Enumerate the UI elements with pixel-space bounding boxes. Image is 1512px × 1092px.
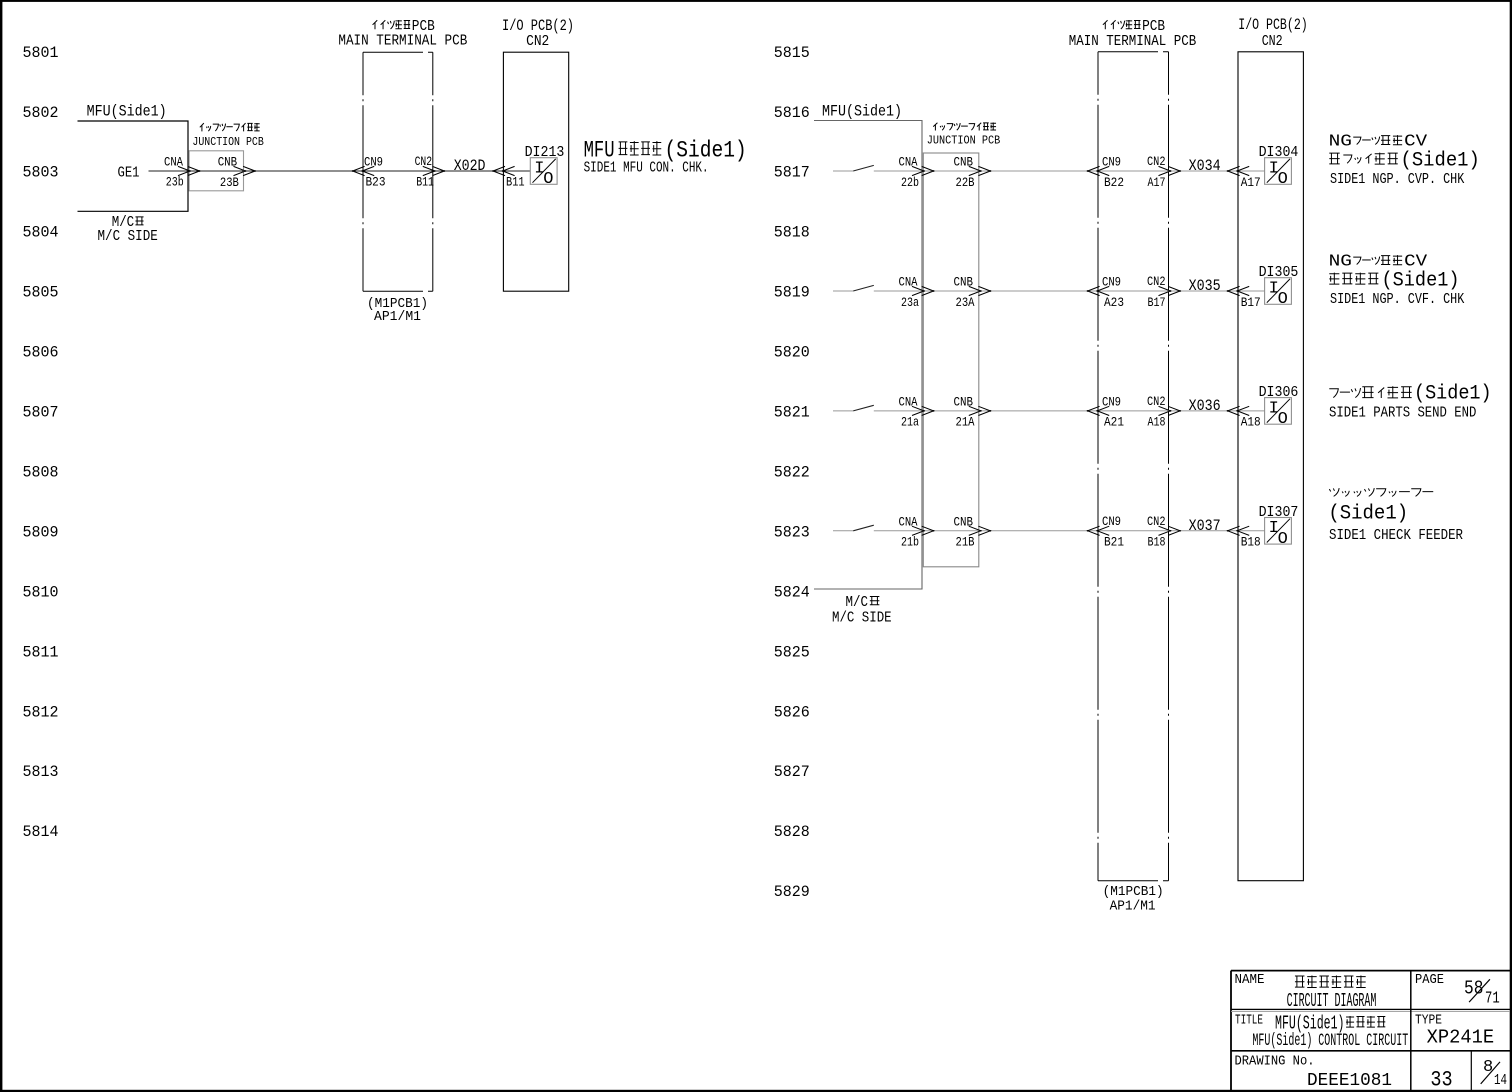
- connector CNA pin 23b: [178, 166, 190, 175]
- svg-text:SIDE1 CHECK FEEDER: SIDE1 CHECK FEEDER: [1329, 527, 1463, 544]
- svg-text:5810: 5810: [23, 583, 59, 601]
- svg-text:(M1PCB1): (M1PCB1): [1103, 884, 1164, 900]
- svg-text:DRAWING No.: DRAWING No.: [1235, 1054, 1315, 1070]
- switch contact row X034: [833, 170, 853, 172]
- svg-text:CNB: CNB: [954, 515, 974, 529]
- svg-text:CN9: CN9: [1102, 155, 1121, 169]
- svg-text:33: 33: [1430, 1068, 1452, 1092]
- svg-text:(Side1): (Side1): [1382, 270, 1460, 293]
- svg-text:71: 71: [1485, 990, 1500, 1009]
- wire row X035: [874, 290, 1265, 292]
- svg-text:5821: 5821: [774, 404, 810, 422]
- main terminal PCB box right (dash-dot): [1098, 51, 1169, 53]
- svg-text:TITLE: TITLE: [1235, 1014, 1263, 1029]
- connector CNA pin 23a: [912, 286, 924, 295]
- svg-text:NG: NG: [1329, 132, 1352, 151]
- connector CN9 pin B22: [1088, 166, 1100, 175]
- connector CN2 pin A18: [1159, 406, 1171, 415]
- connector CN2 pin A17 entry: [1228, 166, 1240, 175]
- svg-text:(Side1): (Side1): [1328, 503, 1408, 526]
- svg-text:B22: B22: [1104, 176, 1124, 190]
- I/O module DI213 symbol: [530, 158, 557, 185]
- fraction slash 58/71: [1469, 979, 1490, 1002]
- svg-text:A21: A21: [1104, 416, 1124, 430]
- svg-text:CN2: CN2: [1262, 33, 1283, 50]
- svg-text:23A: 23A: [956, 296, 975, 310]
- title block frame: [1231, 970, 1510, 972]
- svg-text:CNA: CNA: [899, 276, 918, 290]
- svg-text:CN2: CN2: [1147, 395, 1166, 409]
- svg-text:MFU(Side1): MFU(Side1): [822, 102, 902, 120]
- svg-text:CN9: CN9: [1102, 275, 1121, 289]
- switch contact row X035: [833, 290, 853, 292]
- svg-text:5809: 5809: [23, 523, 59, 541]
- svg-text:CNA: CNA: [899, 156, 918, 170]
- svg-text:CN9: CN9: [1102, 395, 1121, 409]
- svg-text:5805: 5805: [23, 284, 59, 302]
- svg-text:JUNCTION PCB: JUNCTION PCB: [927, 134, 1001, 148]
- svg-text:CN2: CN2: [1147, 155, 1166, 169]
- title text: electric circuit diagram (Japanese): [1295, 976, 1304, 987]
- svg-text:5824: 5824: [774, 583, 810, 601]
- svg-text:5829: 5829: [774, 883, 810, 901]
- svg-text:O: O: [1278, 170, 1288, 189]
- junction PCB box right: [923, 153, 979, 567]
- svg-text:MFU(Side1) CONTROL CIRCUIT: MFU(Side1) CONTROL CIRCUIT: [1252, 1031, 1408, 1051]
- svg-text:21B: 21B: [956, 536, 975, 550]
- svg-text:B11: B11: [416, 175, 434, 189]
- header main terminal PCB (Japanese) right: [1103, 20, 1108, 29]
- svg-text:CNB: CNB: [954, 396, 974, 410]
- svg-text:CN9: CN9: [364, 155, 383, 169]
- svg-text:SIDE1 NGP. CVP. CHK: SIDE1 NGP. CVP. CHK: [1330, 171, 1464, 188]
- svg-text:B21: B21: [1104, 536, 1124, 550]
- svg-text:MAIN TERMINAL PCB: MAIN TERMINAL PCB: [1069, 33, 1197, 50]
- junction PCB box left: [189, 151, 243, 191]
- svg-text:21A: 21A: [956, 416, 975, 430]
- svg-text:B18: B18: [1241, 536, 1261, 550]
- svg-text:CNB: CNB: [218, 156, 238, 170]
- svg-text:O: O: [1278, 290, 1288, 309]
- connector CN2 pin B18 entry: [1228, 526, 1240, 535]
- connector CN9 pin A21: [1088, 406, 1100, 415]
- connector CN2 pin B11 entry: [493, 166, 505, 175]
- svg-text:O: O: [1278, 410, 1288, 429]
- svg-text:A17: A17: [1241, 176, 1261, 190]
- connector CN9 pin B23: [353, 166, 365, 175]
- svg-text:NG: NG: [1329, 252, 1352, 271]
- svg-text:(Side1): (Side1): [1414, 382, 1492, 405]
- svg-text:X02D: X02D: [454, 157, 486, 175]
- svg-text:SIDE1 PARTS SEND END: SIDE1 PARTS SEND END: [1329, 404, 1476, 421]
- connector CN2 pin B11: [423, 166, 435, 175]
- connector CN2 pin A17: [1159, 166, 1171, 175]
- svg-text:5815: 5815: [774, 44, 810, 62]
- svg-text:5811: 5811: [23, 643, 59, 661]
- svg-text:CN2: CN2: [1147, 275, 1166, 289]
- svg-text:MAIN TERMINAL PCB: MAIN TERMINAL PCB: [338, 33, 467, 50]
- svg-text:22B: 22B: [956, 176, 975, 190]
- connector CNB pin 21B: [969, 526, 981, 535]
- svg-text:CIRCUIT DIAGRAM: CIRCUIT DIAGRAM: [1287, 990, 1377, 1012]
- annotation DI306: parts send end (Side1): [1329, 389, 1338, 398]
- connector CN2 pin B17: [1159, 286, 1171, 295]
- wire row X036: [874, 410, 1265, 412]
- svg-text:23B: 23B: [220, 176, 239, 190]
- svg-text:CN2: CN2: [415, 155, 433, 169]
- svg-text:23a: 23a: [901, 296, 919, 310]
- connector CNB pin 22B: [969, 166, 981, 175]
- svg-text:5814: 5814: [23, 823, 59, 841]
- svg-text:A23: A23: [1104, 296, 1124, 310]
- connector CN2 pin A18 entry: [1228, 406, 1240, 415]
- page border frame: [0, 0, 1512, 2]
- connector CNA pin 21a: [912, 406, 924, 415]
- svg-text:O: O: [1278, 530, 1288, 549]
- svg-text:GE1: GE1: [118, 166, 140, 182]
- svg-text:5817: 5817: [774, 164, 810, 182]
- svg-text:5828: 5828: [774, 823, 810, 841]
- svg-text:CN2: CN2: [1147, 515, 1166, 529]
- svg-text:(Side1): (Side1): [1401, 150, 1480, 173]
- svg-text:M/C SIDE: M/C SIDE: [832, 610, 892, 627]
- svg-text:21b: 21b: [901, 536, 919, 550]
- svg-text:CN2: CN2: [526, 33, 549, 50]
- connector CN9 pin B21: [1088, 526, 1100, 535]
- svg-text:XP241E: XP241E: [1427, 1027, 1495, 1049]
- svg-text:SIDE1 MFU CON. CHK.: SIDE1 MFU CON. CHK.: [584, 159, 709, 176]
- svg-text:5816: 5816: [774, 104, 810, 122]
- svg-text:5826: 5826: [774, 703, 810, 721]
- svg-text:5812: 5812: [23, 703, 59, 721]
- svg-text:5802: 5802: [23, 104, 59, 122]
- svg-text:5818: 5818: [774, 224, 810, 242]
- svg-text:8: 8: [1483, 1058, 1493, 1077]
- svg-text:22b: 22b: [901, 176, 919, 190]
- connector CN2 pin B17 entry: [1228, 286, 1240, 295]
- svg-text:CV: CV: [1404, 252, 1427, 271]
- svg-text:MFU(Side1): MFU(Side1): [87, 102, 167, 120]
- annotation DI307: check feeder (Side1): [1329, 488, 1339, 496]
- svg-text:AP1/M1: AP1/M1: [1110, 899, 1156, 915]
- svg-text:X036: X036: [1189, 397, 1221, 415]
- junction PCB label (Japanese) left: [200, 123, 204, 131]
- switch contact row X037: [833, 530, 853, 532]
- svg-text:5813: 5813: [23, 763, 59, 781]
- svg-text:CNB: CNB: [954, 276, 974, 290]
- svg-text:X037: X037: [1189, 517, 1221, 535]
- I/O module DI305 symbol: [1265, 278, 1292, 305]
- I/O PCB(2) box right: [1238, 52, 1303, 881]
- svg-text:CV: CV: [1404, 132, 1427, 151]
- switch contact row X036: [833, 410, 853, 412]
- I/O module DI304 symbol: [1265, 158, 1292, 185]
- svg-text:PAGE: PAGE: [1415, 972, 1444, 988]
- main terminal PCB box left (dash-dot): [363, 51, 433, 53]
- svg-text:B23: B23: [366, 176, 386, 190]
- svg-text:A18: A18: [1148, 416, 1166, 430]
- svg-text:5819: 5819: [774, 284, 810, 302]
- svg-text:5807: 5807: [23, 404, 59, 422]
- svg-text:14: 14: [1494, 1072, 1507, 1089]
- svg-text:O: O: [543, 170, 553, 189]
- svg-text:M/C: M/C: [846, 595, 869, 611]
- svg-text:CNA: CNA: [899, 515, 918, 529]
- svg-text:CNA: CNA: [164, 156, 183, 170]
- svg-text:5806: 5806: [23, 344, 59, 362]
- connector CN2 pin B18: [1159, 526, 1171, 535]
- svg-text:5801: 5801: [23, 44, 59, 62]
- svg-text:5825: 5825: [774, 643, 810, 661]
- svg-text:I/O PCB(2): I/O PCB(2): [1238, 16, 1307, 34]
- svg-text:23b: 23b: [166, 176, 184, 190]
- svg-text:NAME: NAME: [1235, 972, 1265, 988]
- connector CN9 pin A23: [1088, 286, 1100, 295]
- svg-text:X034: X034: [1189, 157, 1221, 175]
- svg-text:CNB: CNB: [954, 156, 974, 170]
- svg-text:B11: B11: [506, 176, 525, 190]
- svg-text:A17: A17: [1148, 176, 1166, 190]
- connector CNA pin 21b: [912, 526, 924, 535]
- connector CNA pin 22b: [912, 166, 924, 175]
- fraction slash 8/14: [1481, 1062, 1500, 1084]
- svg-text:M/C SIDE: M/C SIDE: [98, 228, 158, 245]
- I/O module DI306 symbol: [1265, 398, 1292, 425]
- wire row X037: [874, 530, 1265, 532]
- svg-text:5822: 5822: [774, 463, 810, 481]
- I/O PCB(2) box left: [503, 52, 568, 291]
- svg-text:B17: B17: [1148, 296, 1166, 310]
- svg-text:5808: 5808: [23, 463, 59, 481]
- junction PCB label (Japanese) right: [933, 123, 937, 131]
- I/O module DI307 symbol: [1265, 518, 1292, 545]
- connector CNB pin 23B: [234, 166, 246, 175]
- svg-text:21a: 21a: [901, 416, 919, 430]
- svg-text:CN9: CN9: [1102, 515, 1121, 529]
- svg-text:SIDE1 NGP. CVF. CHK: SIDE1 NGP. CVF. CHK: [1330, 291, 1464, 308]
- connector CNB pin 23A: [969, 286, 981, 295]
- svg-text:5823: 5823: [774, 523, 810, 541]
- MFU side bracket right: [814, 121, 922, 590]
- svg-text:5820: 5820: [774, 344, 810, 362]
- MFU side bracket GE1 enclosure: [78, 121, 189, 211]
- wire GE1 to DI213 row 5803: [149, 170, 531, 172]
- svg-text:CNA: CNA: [899, 396, 918, 410]
- svg-text:B17: B17: [1241, 296, 1261, 310]
- connector CNB pin 21A: [969, 406, 981, 415]
- svg-text:JUNCTION PCB: JUNCTION PCB: [192, 135, 263, 149]
- header main terminal PCB (Japanese) left: [373, 20, 378, 29]
- svg-text:B18: B18: [1148, 536, 1166, 550]
- svg-text:DEEE1081: DEEE1081: [1307, 1071, 1392, 1091]
- svg-text:AP1/M1: AP1/M1: [374, 309, 421, 325]
- svg-text:X035: X035: [1189, 277, 1221, 295]
- wire row X034: [874, 170, 1265, 172]
- svg-text:5804: 5804: [23, 224, 59, 242]
- svg-text:A18: A18: [1241, 416, 1261, 430]
- svg-text:5827: 5827: [774, 763, 810, 781]
- svg-text:5803: 5803: [23, 164, 59, 182]
